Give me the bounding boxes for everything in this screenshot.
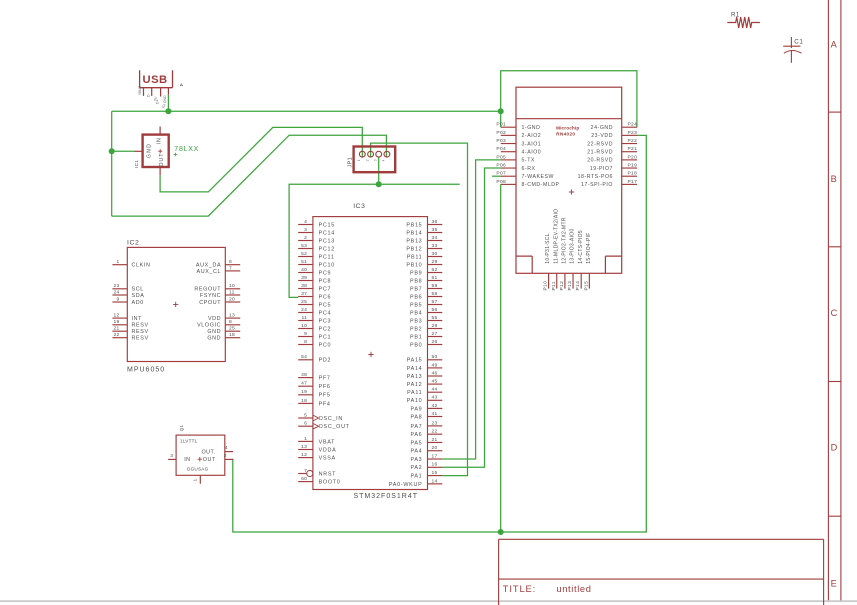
svg-text:22-RSVD: 22-RSVD	[587, 141, 613, 147]
svg-text:55: 55	[432, 315, 438, 321]
svg-text:43: 43	[432, 395, 438, 401]
wire module P08 down to bottom net	[500, 184, 502, 532]
svg-text:42: 42	[432, 403, 438, 409]
module pin 12-PIO2-TX2-MTR	[559, 217, 568, 290]
svg-text:11-MLDP-EV-TX2/AIO: 11-MLDP-EV-TX2/AIO	[553, 209, 559, 264]
IC3 pin 8 PC0	[298, 339, 331, 349]
svg-text:A: A	[831, 40, 838, 50]
IC3 STM32F051	[313, 203, 428, 500]
svg-text:PB3: PB3	[410, 318, 422, 324]
svg-text:PC3: PC3	[319, 318, 332, 324]
svg-text:10-P31-SCL: 10-P31-SCL	[545, 233, 551, 264]
wire bottom net Q1 to module P23	[233, 135, 647, 532]
svg-text:GND: GND	[207, 336, 221, 342]
svg-text:IN: IN	[184, 457, 190, 463]
svg-text:PC5: PC5	[319, 302, 332, 308]
svg-text:20: 20	[229, 296, 235, 302]
wire module P07 stub	[492, 175, 501, 177]
IC2 pin 19 RESV	[112, 319, 148, 329]
svg-text:15: 15	[432, 470, 438, 476]
svg-text:36: 36	[432, 219, 438, 225]
svg-text:E: E	[831, 578, 837, 588]
module pin 15-PIO4-PIF	[583, 232, 592, 290]
junction rail/78LXX branch	[109, 148, 115, 154]
IC3 pin 15 PA1	[410, 470, 442, 480]
svg-text:IN: IN	[157, 137, 163, 144]
IC3 pin 2 PC13	[298, 235, 335, 245]
module pin 5-TX	[496, 154, 535, 163]
svg-text:P20: P20	[628, 154, 638, 160]
svg-text:SDA: SDA	[132, 293, 145, 299]
svg-text:54: 54	[301, 354, 307, 360]
svg-text:R1: R1	[731, 12, 740, 19]
IC2 pin 23 SCL	[112, 283, 143, 293]
junction USB/rail	[165, 108, 171, 114]
svg-text:4: 4	[304, 219, 307, 225]
IC2 pin 7 AUX_CL	[196, 265, 240, 275]
module pin 21-RSVD	[587, 146, 637, 155]
IC2 pin 6 AUX_DA	[196, 259, 240, 269]
svg-text:PD2: PD2	[319, 358, 332, 364]
svg-text:Microchip: Microchip	[556, 125, 579, 130]
IC3 pin 22 PA6	[410, 429, 442, 439]
svg-text:FSYNC: FSYNC	[200, 293, 221, 299]
svg-text:IC1: IC1	[134, 160, 140, 168]
svg-text:RN4020: RN4020	[556, 131, 575, 136]
svg-text:PA14: PA14	[407, 366, 423, 372]
svg-text:D-: D-	[147, 93, 151, 97]
svg-text:P06: P06	[496, 163, 506, 169]
svg-text:AUX_CL: AUX_CL	[196, 269, 221, 275]
capacitor C1	[783, 37, 803, 63]
svg-text:PA13: PA13	[407, 374, 423, 380]
svg-text:2-AIO2: 2-AIO2	[522, 133, 542, 139]
svg-text:62: 62	[432, 267, 438, 273]
svg-text:6-RX: 6-RX	[522, 166, 536, 172]
svg-text:PA10: PA10	[407, 398, 423, 404]
svg-text:PC0: PC0	[319, 342, 332, 348]
title block	[499, 539, 824, 605]
svg-text:P22: P22	[628, 138, 638, 144]
svg-text:78LXX: 78LXX	[174, 146, 199, 153]
svg-text:13-PIO3-AIO0: 13-PIO3-AIO0	[570, 228, 576, 263]
svg-text:13: 13	[301, 444, 307, 450]
svg-text:11: 11	[229, 289, 235, 295]
svg-text:19: 19	[301, 389, 307, 395]
svg-text:PA0-WKUP: PA0-WKUP	[389, 482, 423, 488]
svg-text:38: 38	[301, 283, 307, 289]
svg-text:AD0: AD0	[132, 300, 144, 306]
svg-text:2: 2	[304, 235, 307, 241]
svg-text:60: 60	[301, 476, 307, 482]
svg-text:53: 53	[301, 243, 307, 249]
svg-text:PC12: PC12	[319, 246, 335, 252]
IC2 pin 1 CLKIN	[112, 259, 150, 269]
svg-text:REGOUT: REGOUT	[194, 287, 221, 293]
svg-text:OUT: OUT	[159, 153, 165, 167]
wire JP1 pin3 down to horizontal net	[378, 157, 380, 184]
svg-text:PA2: PA2	[410, 465, 422, 471]
module pin 8-CMD-MLDP	[496, 179, 559, 188]
IC3 pin 6 OSC_OUT	[298, 421, 350, 431]
svg-text:OUT.: OUT.	[202, 449, 216, 455]
svg-text:52: 52	[301, 251, 307, 257]
svg-text:PC10: PC10	[319, 262, 335, 268]
svg-text:GND: GND	[147, 143, 153, 158]
svg-text:19: 19	[113, 319, 119, 325]
IC2 pin 10 REGOUT	[194, 283, 240, 293]
wire lower diagonal to JP1 pin4	[112, 135, 387, 216]
svg-text:PC14: PC14	[319, 230, 335, 236]
svg-text:VDD: VDD	[208, 316, 221, 322]
IC3 pin 46 PA13	[407, 370, 443, 380]
wire 78LXX OUT diagonal to JP1 pin1	[160, 127, 362, 191]
svg-text:VSSA: VSSA	[319, 456, 336, 462]
USB pin 2	[151, 88, 153, 96]
svg-text:INT: INT	[132, 316, 143, 322]
IC3 pin 49 PA14	[407, 362, 443, 372]
svg-text:TITLE:: TITLE:	[503, 584, 536, 594]
svg-text:24: 24	[301, 307, 307, 313]
module pin 11-MLDP-EV-TX2/AIO	[551, 209, 560, 291]
JP1 pad 2	[368, 151, 374, 157]
svg-text:P01: P01	[496, 122, 506, 128]
svg-text:PC2: PC2	[319, 326, 332, 332]
svg-text:PB9: PB9	[410, 270, 422, 276]
svg-text:34: 34	[432, 235, 438, 241]
IC3 pin 38 PC7	[298, 283, 331, 293]
svg-text:28: 28	[432, 323, 438, 329]
svg-text:21: 21	[432, 437, 438, 443]
svg-text:46: 46	[432, 370, 438, 376]
IC3 pin 52 PC11	[298, 251, 334, 261]
svg-text:PB7: PB7	[410, 286, 422, 292]
svg-text:1: 1	[304, 436, 307, 442]
svg-text:23-VDD: 23-VDD	[591, 133, 613, 139]
svg-text:1: 1	[116, 259, 119, 265]
svg-text:29: 29	[432, 259, 438, 265]
IC3 pin 53 PC12	[298, 243, 335, 253]
JP1 pad 4	[384, 151, 390, 157]
svg-text:PB11: PB11	[407, 254, 423, 260]
svg-text:1LVTTL: 1LVTTL	[180, 439, 198, 444]
IC3 pin 43 PA10	[407, 395, 443, 405]
svg-text:PB6: PB6	[410, 294, 422, 300]
svg-text:1-GND: 1-GND	[522, 125, 541, 131]
svg-text:P12: P12	[559, 281, 565, 291]
svg-text:C1: C1	[794, 39, 803, 46]
svg-text:21-RSVD: 21-RSVD	[587, 150, 613, 156]
svg-text:13: 13	[229, 313, 235, 319]
IC2 pin 20 CPOUT	[199, 296, 240, 306]
IC3 pin 36 PB15	[406, 219, 442, 229]
frame row labels A-E	[831, 40, 838, 589]
wire loop over module to P24	[501, 71, 637, 128]
svg-text:9: 9	[304, 331, 307, 337]
module RN4020 outline	[516, 87, 622, 273]
IC2 pin 25 GND	[207, 326, 240, 336]
IC3 pin 35 PB14	[406, 227, 442, 237]
svg-text:JP1: JP1	[347, 157, 353, 168]
svg-text:P05: P05	[496, 154, 506, 160]
svg-text:PC13: PC13	[319, 238, 335, 244]
svg-text:CLKIN: CLKIN	[132, 263, 151, 269]
IC3 pin 39 PC8	[298, 275, 331, 285]
IC3 pin 20 PA4	[410, 445, 442, 455]
JP1 pad 3	[376, 151, 382, 157]
Q1 pin 1	[193, 475, 201, 484]
svg-text:41: 41	[432, 411, 438, 417]
IC3 pin 16 PA2	[410, 462, 442, 472]
svg-text:P10: P10	[543, 281, 549, 291]
IC3 pin 10 PC2	[298, 323, 331, 333]
USB origin mark	[180, 83, 183, 86]
svg-text:GND: GND	[163, 95, 167, 103]
svg-text:NRST: NRST	[319, 471, 337, 477]
svg-text:17-SPI-PIO: 17-SPI-PIO	[581, 182, 613, 188]
IC3 pin 55 PB3	[410, 315, 442, 325]
IC3 pin 19 PF5	[298, 389, 330, 399]
svg-text:7: 7	[304, 468, 307, 474]
svg-text:PC8: PC8	[319, 278, 332, 284]
USB pin 3	[160, 88, 162, 97]
svg-text:PB2: PB2	[410, 326, 422, 332]
IC3 pin 24 PC4	[298, 307, 331, 317]
svg-text:P17: P17	[628, 179, 638, 185]
svg-text:PA6: PA6	[410, 432, 422, 438]
svg-text:RESV: RESV	[132, 336, 149, 342]
IC3 pin 50 PA15	[407, 354, 443, 364]
resistor R1	[727, 12, 760, 29]
svg-text:MPU6050: MPU6050	[127, 367, 165, 374]
svg-text:8-CMD-MLDP: 8-CMD-MLDP	[522, 182, 560, 188]
IC3 pin 54 PD2	[298, 354, 331, 364]
wire main V+ rail	[112, 110, 501, 112]
svg-text:14-CTS-PIO5: 14-CTS-PIO5	[578, 230, 584, 264]
svg-text:P03: P03	[496, 138, 506, 144]
svg-text:VBAT: VBAT	[319, 439, 336, 445]
svg-text:PC4: PC4	[319, 310, 332, 316]
wire module P05 TX to IC3 PA3	[442, 160, 501, 459]
svg-text:20-RSVD: 20-RSVD	[587, 158, 613, 164]
svg-text:12: 12	[113, 313, 119, 319]
wire horizontal net to IC3 PC6	[289, 184, 460, 297]
IC3 pin 27 PB1	[410, 331, 442, 341]
svg-text:12-PIO2-TX2-MTR: 12-PIO2-TX2-MTR	[562, 217, 568, 264]
IC3 pin 34 PB13	[406, 235, 442, 245]
svg-text:PB8: PB8	[410, 278, 422, 284]
IC2 pin 24 SDA	[112, 289, 144, 299]
svg-text:PB5: PB5	[410, 302, 422, 308]
svg-text:14: 14	[432, 478, 438, 484]
svg-text:PB14: PB14	[406, 230, 422, 236]
regulator IC1 78LXX	[134, 127, 169, 176]
IC3 pin 40 PC9	[298, 267, 331, 277]
svg-text:5: 5	[304, 412, 307, 418]
svg-text:18-RTS-PO6: 18-RTS-PO6	[578, 174, 613, 180]
svg-text:9: 9	[116, 296, 119, 302]
svg-text:VBUS: VBUS	[138, 85, 142, 95]
IC2 pin 13 VDD	[208, 313, 240, 323]
svg-text:6: 6	[229, 259, 232, 265]
svg-text:OSC_OUT: OSC_OUT	[319, 424, 350, 430]
module name text	[556, 125, 579, 194]
svg-text:DGUSAG: DGUSAG	[187, 467, 209, 472]
module pin 18-RTS-PO6	[578, 171, 638, 180]
svg-text:57: 57	[432, 299, 438, 305]
svg-text:P08: P08	[496, 179, 506, 185]
junction JP1 pin3 net	[376, 181, 382, 187]
IC3 pin 58 PB6	[410, 291, 442, 301]
module pin 24-GND	[591, 122, 637, 131]
svg-text:PB12: PB12	[406, 246, 422, 252]
svg-text:P02: P02	[496, 130, 506, 136]
IC3 pin 28 PB2	[410, 323, 442, 333]
svg-text:2: 2	[365, 159, 369, 161]
IC2 pin 12 INT	[112, 313, 142, 323]
svg-text:8: 8	[304, 339, 307, 345]
svg-text:39: 39	[301, 275, 307, 281]
IC3 pin 37 PC6	[298, 291, 331, 301]
Q1 pin 4 OUT.	[202, 445, 234, 455]
svg-text:P04: P04	[496, 146, 506, 152]
svg-text:P07: P07	[496, 171, 506, 177]
USB pin 1	[143, 88, 145, 96]
svg-text:18: 18	[301, 398, 307, 404]
svg-text:Q1: Q1	[179, 424, 184, 431]
IC3 pin 62 PB9	[410, 267, 442, 277]
svg-text:8: 8	[229, 319, 232, 325]
svg-text:3: 3	[374, 159, 378, 161]
IC3 pin 13 VDDA	[298, 444, 336, 454]
svg-text:PB13: PB13	[406, 238, 422, 244]
svg-text:22: 22	[432, 429, 438, 435]
svg-text:19-PIO7: 19-PIO7	[590, 166, 613, 172]
svg-text:untitled: untitled	[556, 584, 591, 594]
svg-text:PF5: PF5	[319, 393, 331, 399]
svg-text:PA11: PA11	[407, 390, 422, 396]
svg-text:PA15: PA15	[407, 358, 423, 364]
svg-text:PC1: PC1	[319, 334, 332, 340]
IC3 pin 30 PB11	[407, 251, 443, 261]
svg-text:P14: P14	[575, 281, 581, 291]
svg-text:51: 51	[301, 259, 307, 265]
svg-text:PA1: PA1	[410, 473, 422, 479]
IC3 pin 25 PC5	[298, 299, 331, 309]
svg-text:SCL: SCL	[132, 287, 144, 293]
JP1 pad 1	[359, 151, 365, 157]
svg-text:45: 45	[432, 379, 438, 385]
svg-text:STM32F0S1R4T: STM32F0S1R4T	[354, 493, 419, 500]
IC3 pin 33 PB12	[406, 243, 442, 253]
svg-text:IC2: IC2	[127, 239, 139, 246]
svg-text:PA9: PA9	[410, 406, 422, 412]
USB pin 4	[167, 88, 169, 95]
svg-text:5-TX: 5-TX	[522, 158, 535, 164]
IC3 pin 56 PB4	[410, 307, 442, 317]
frame right border columns	[828, 0, 841, 605]
IC3 pin 42 PA9	[410, 403, 442, 413]
IC3 pin 11 PC3	[298, 315, 331, 325]
svg-text:PC6: PC6	[319, 294, 332, 300]
svg-text:PB15: PB15	[406, 222, 422, 228]
module pin 3-AIO1	[496, 138, 541, 147]
svg-text:USB: USB	[143, 74, 168, 86]
svg-text:3-AIO1: 3-AIO1	[522, 141, 542, 147]
svg-text:10: 10	[229, 283, 235, 289]
svg-text:PA7: PA7	[410, 424, 422, 430]
svg-text:47: 47	[301, 381, 307, 387]
module pin 13-PIO3-AIO0	[567, 228, 576, 290]
svg-text:P18: P18	[628, 171, 638, 177]
svg-text:20: 20	[432, 445, 438, 451]
svg-text:P13: P13	[567, 281, 573, 291]
svg-text:C: C	[831, 308, 838, 318]
svg-text:3: 3	[304, 227, 307, 233]
svg-text:11: 11	[302, 315, 308, 321]
svg-text:OSC_IN: OSC_IN	[319, 416, 343, 422]
connector USB	[140, 70, 173, 87]
svg-text:PB0: PB0	[410, 342, 422, 348]
module pin 2-AIO2	[496, 130, 541, 139]
78LXX value label	[174, 146, 199, 156]
wire rail to 78LXX IN pin	[112, 150, 135, 152]
svg-text:PA8: PA8	[410, 414, 422, 420]
IC3 pin 3 PC14	[298, 227, 335, 237]
svg-text:PA3: PA3	[410, 457, 422, 463]
svg-text:48: 48	[301, 372, 307, 378]
svg-text:22: 22	[113, 332, 119, 338]
svg-text:37: 37	[301, 291, 307, 297]
svg-text:D: D	[831, 443, 838, 453]
svg-text:16: 16	[432, 462, 438, 468]
svg-text:2: 2	[224, 453, 227, 459]
module pin 7-WAKESW	[496, 171, 554, 180]
svg-text:25: 25	[229, 326, 235, 332]
IC3 pin 60 BOOT0	[298, 476, 340, 486]
svg-text:OUT: OUT	[203, 457, 216, 463]
svg-text:25: 25	[301, 299, 307, 305]
svg-text:17: 17	[432, 453, 438, 459]
svg-text:B: B	[831, 174, 837, 184]
svg-text:40: 40	[301, 267, 307, 273]
module pin 10-P31-SCL	[543, 233, 552, 290]
IC2 pin 21 RESV	[112, 326, 148, 336]
wire USB pin to rail	[167, 95, 169, 112]
IC2 MPU6050	[127, 239, 225, 373]
svg-text:15-PIO4-PIF: 15-PIO4-PIF	[586, 232, 592, 263]
svg-text:RESV: RESV	[132, 329, 149, 335]
svg-text:30: 30	[432, 251, 438, 257]
svg-text:7-WAKESW: 7-WAKESW	[522, 174, 554, 180]
module pin 19-PIO7	[590, 163, 637, 172]
svg-text:7: 7	[229, 265, 232, 271]
svg-text:3: 3	[170, 453, 173, 459]
svg-text:P11: P11	[551, 281, 557, 290]
svg-text:P21: P21	[628, 146, 638, 152]
svg-text:33: 33	[432, 243, 438, 249]
IC2 pin 18 GND	[207, 332, 240, 342]
module pin 6-RX	[496, 163, 535, 172]
svg-text:RESV: RESV	[132, 323, 149, 329]
svg-text:27: 27	[432, 331, 438, 337]
IC3 pin 18 PF4	[298, 398, 330, 408]
IC2 pin 9 AD0	[112, 296, 143, 306]
svg-text:PB10: PB10	[406, 262, 422, 268]
module pin 23-VDD	[591, 130, 637, 139]
svg-text:P24: P24	[628, 122, 638, 128]
IC3 pin 23 PA7	[410, 420, 442, 430]
